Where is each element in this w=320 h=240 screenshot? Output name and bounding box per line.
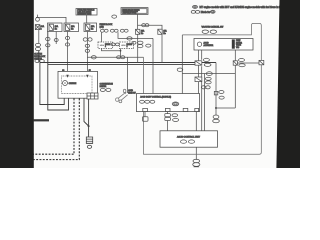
svg-text:No: No (55, 29, 57, 31)
svg-text:ASCD CONTROL UNIT: ASCD CONTROL UNIT (177, 136, 201, 139)
connector ref at stack (172, 114, 178, 117)
module pin stub 1 (144, 112, 146, 117)
wire: label box down to fuse A (137, 14, 139, 29)
connector box J2 (195, 77, 202, 82)
wire: junction to pump riser (216, 107, 235, 109)
inline connector stack (165, 114, 171, 121)
fuse A (136, 29, 145, 35)
inline connector pair (142, 24, 149, 27)
connector pair below clutch label (35, 60, 44, 63)
wire: fuse A output to bus (137, 34, 139, 62)
connector refs at D2 (132, 41, 151, 48)
ascd actuator box (194, 39, 253, 51)
meter connector table (87, 93, 98, 99)
connector M13 (91, 56, 96, 59)
junction diode outputs (120, 50, 122, 52)
connector refs M50 M51 (181, 140, 195, 143)
label: ascd main switch (128, 89, 136, 94)
dashed speedometer wire 1 (33, 99, 74, 155)
connector refs under fuse block label (100, 29, 128, 32)
page tab mark (34, 119, 50, 121)
svg-text:Diode for: Diode for (201, 11, 211, 14)
joint connector on 216 wire (214, 91, 218, 95)
svg-text:PUMP: PUMP (236, 40, 241, 42)
wire: module pin4 to control unit (195, 112, 197, 131)
ascd control unit box (160, 131, 218, 147)
svg-text:VACUUM CANCEL SW: VACUUM CANCEL SW (202, 26, 224, 29)
connector refs at D1 (111, 43, 119, 46)
wire: fuse F1 second output stub (55, 32, 57, 45)
enclosure left edge wire (143, 57, 145, 154)
wire: actuator pair to control unit (202, 74, 205, 131)
ground G2 (193, 159, 200, 167)
arrow into meter pin15 (86, 75, 88, 78)
svg-text:MAIN SW: MAIN SW (128, 91, 136, 94)
wire: clutch switch down to bus and meter (39, 51, 64, 105)
battery node B+ (36, 18, 40, 22)
connector refs inside module (140, 100, 179, 106)
svg-text:ASCD BODY CONTROL (MODULE): ASCD BODY CONTROL (MODULE) (140, 96, 171, 99)
legend line 1 (193, 5, 283, 8)
stub connector box (142, 117, 148, 121)
connector M1 (65, 36, 69, 39)
wire: actuator double pair down (199, 50, 202, 94)
cruise indicator lamp (63, 81, 77, 86)
ASCD main switch symbol (116, 89, 128, 103)
svg-text:No: No (163, 33, 165, 35)
connector refs at J2 (205, 77, 211, 84)
svg-text:b: b (41, 29, 42, 31)
diode box D2 (120, 42, 134, 49)
svg-text:1: 1 (105, 46, 106, 48)
fusible link FL (35, 25, 44, 31)
stray connector ref a (112, 15, 117, 18)
wire: pump motor output (234, 50, 236, 61)
diode box D1 (98, 42, 113, 49)
fuse B (158, 29, 168, 35)
svg-text:No: No (91, 29, 93, 31)
connector box J4 (259, 60, 264, 64)
right black sidebar (276, 0, 300, 168)
wire: meter output a (84, 99, 89, 127)
legend line 2 (191, 10, 215, 14)
wire: fuse F1 output to meter ground bus (48, 32, 69, 111)
connector M6 (85, 49, 89, 52)
label: clutch interlock switch (34, 54, 46, 61)
connector refs at joint (219, 91, 224, 100)
main bus line 2 (48, 63, 197, 65)
svg-text:2: 2 (127, 46, 128, 48)
wire: label box to fuse block (86, 15, 88, 23)
connector M5 (85, 44, 89, 47)
fuse F3 (84, 23, 97, 32)
wire: branch to fuse B (138, 25, 163, 29)
label: fuse block (100, 24, 113, 29)
connector M16 (206, 72, 212, 76)
connector refs M23 M24 (100, 88, 111, 91)
label: combination meter (100, 83, 114, 89)
svg-text:No: No (71, 29, 73, 31)
wire: branch line to switch feed (87, 56, 143, 58)
junction at 216 (215, 107, 217, 109)
wire: diode 2 output (120, 49, 122, 58)
left column: fusible link wire (38, 30, 40, 44)
wire: branch to pump riser (182, 73, 235, 75)
svg-text:MOTOR: MOTOR (236, 42, 243, 44)
connector box J3 (233, 61, 237, 65)
connector E3 (54, 39, 58, 42)
svg-text:METER: METER (100, 86, 107, 88)
wire: branch drop to main switch (126, 57, 128, 93)
connector refs at J1 (203, 58, 211, 66)
wire: top supply line (36, 17, 66, 23)
svg-text:MT engine models with ECT and: MT engine models with ECT and KA24DE eng… (200, 6, 283, 9)
fuse F1 (48, 23, 63, 32)
wire: fuse F2 output to meter (67, 32, 69, 77)
fuse F2 (64, 23, 79, 32)
ascd control module box (137, 94, 200, 112)
svg-text:(J/B): (J/B) (100, 27, 105, 29)
svg-text:HARNESS SIDE): HARNESS SIDE) (77, 12, 91, 15)
wire: bus to module feed (152, 38, 154, 93)
wire: pump wire down to junction (234, 65, 236, 108)
svg-text:ACTUATOR: ACTUATOR (204, 44, 214, 47)
wire: meter output b to ground (88, 99, 90, 137)
wire: bus1 drop at 216 (215, 63, 217, 109)
dashed speedometer wire 2 (33, 99, 79, 160)
wire: diode 1 output (102, 49, 121, 51)
connector refs sensor (202, 30, 216, 33)
wire: stack to control unit (167, 121, 169, 131)
ground stack G3 (213, 115, 220, 123)
wire: fuse block to module feed (118, 32, 153, 38)
label box: horn relay feed (121, 8, 148, 15)
meter internal dashed box (62, 76, 93, 94)
arrow into meter pin16 (66, 75, 68, 78)
wire: junction to body ground (215, 108, 217, 115)
wire: actuator drop and branch (181, 35, 183, 94)
label box: fuse and fusible link source (76, 9, 97, 16)
connector on actuator drop (177, 68, 183, 71)
wire: J3 to J4 (237, 62, 259, 64)
svg-text:CRUISE: CRUISE (69, 83, 77, 85)
main bus line 1 (40, 62, 216, 64)
connector M2 (65, 43, 69, 46)
connector pair M14 M15 (117, 56, 125, 59)
connector pair 2-2 (201, 86, 210, 89)
connector pair M3 M4 (83, 38, 92, 41)
module bottom pin boxes (143, 108, 199, 111)
connector M17 (127, 37, 132, 40)
connector pair on clutch circuit (35, 43, 40, 50)
wire: fuse B output to bus (161, 34, 163, 62)
svg-text:No: No (141, 33, 143, 35)
junction meter ground (88, 125, 90, 127)
wire: feed to diode 1 (101, 32, 103, 42)
connector E2 (46, 44, 50, 47)
module pin stub 2 (167, 112, 169, 114)
engine room enclosure (143, 23, 261, 154)
ground G1 (86, 137, 92, 148)
connector E1 (46, 37, 50, 40)
wire: control unit to ground (195, 147, 197, 160)
combination meter box (58, 71, 98, 98)
connector refs at J3 (239, 59, 246, 67)
left black sidebar (0, 0, 34, 168)
wire: fuse F3 output to meter (86, 32, 88, 77)
connector box J1 (195, 61, 202, 65)
